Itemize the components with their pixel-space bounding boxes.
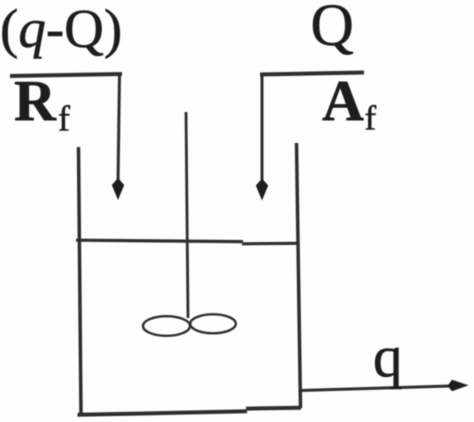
svg-text:f: f bbox=[365, 99, 377, 138]
svg-text:Q: Q bbox=[311, 0, 354, 58]
svg-text:R: R bbox=[14, 68, 57, 133]
svg-text:q: q bbox=[373, 324, 403, 390]
svg-text:f: f bbox=[58, 99, 70, 139]
svg-text:(q-Q): (q-Q) bbox=[0, 0, 122, 59]
svg-text:A: A bbox=[322, 68, 364, 133]
